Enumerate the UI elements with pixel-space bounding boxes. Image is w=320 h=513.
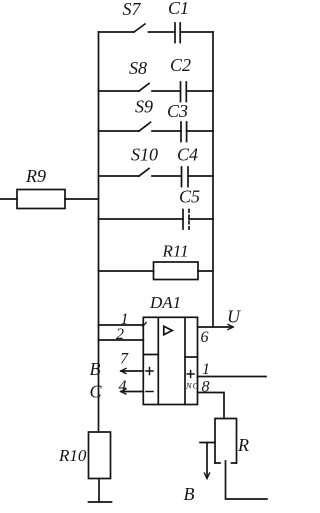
wire R11 left (99, 270, 154, 272)
op-amp minus left (146, 391, 153, 393)
svg-text:R: R (237, 435, 249, 455)
wire S10 to C4 (152, 175, 182, 177)
wire pin7 arrow (121, 370, 143, 372)
svg-text:1: 1 (202, 361, 210, 378)
wire pin1 right (198, 376, 267, 378)
svg-text:C4: C4 (177, 145, 198, 165)
wire R10 to ground (98, 479, 100, 503)
svg-text:S9: S9 (135, 97, 153, 117)
wire C4 to right bus (188, 175, 213, 177)
switch S9 (139, 124, 149, 132)
potentiometer wiper arrow B (200, 442, 215, 444)
svg-text:S8: S8 (129, 58, 147, 78)
switch S7 (134, 24, 145, 32)
svg-text:U: U (227, 307, 241, 327)
op-amp U1 DA1 body (143, 317, 197, 404)
wire pin6 output U (198, 326, 233, 328)
svg-text:R9: R9 (25, 166, 46, 186)
resistor R10 (89, 432, 111, 479)
svg-text:C1: C1 (168, 0, 189, 18)
capacitor C3 (181, 122, 187, 142)
capacitor C4 (182, 167, 189, 187)
wire branch5 left (99, 218, 184, 220)
svg-text:6: 6 (201, 329, 209, 346)
op-amp plus left (146, 368, 153, 375)
wire branch3 left (99, 130, 140, 132)
svg-text:C5: C5 (179, 187, 200, 207)
wire R9 to left bus (65, 198, 99, 200)
svg-text:2: 2 (116, 326, 124, 343)
wire branch2 left (99, 90, 140, 92)
potentiometer R body (215, 419, 237, 464)
svg-text:C: C (90, 382, 103, 402)
wire R11 to right bus (198, 270, 213, 272)
wire branch1 left (99, 31, 135, 33)
wire C5 to right bus (189, 218, 213, 220)
capacitor C5 (182, 210, 184, 230)
wire branch4 left (99, 175, 140, 177)
wire pin4 arrow (121, 391, 143, 393)
wire R center tap down and right (226, 461, 268, 499)
resistor R9 (17, 190, 65, 209)
node right bus (212, 32, 214, 327)
svg-text:S7: S7 (123, 0, 142, 19)
svg-text:4: 4 (119, 378, 127, 395)
svg-text:C3: C3 (167, 101, 188, 121)
svg-text:DA1: DA1 (149, 293, 181, 312)
wire S7 to C1 (149, 31, 176, 33)
wire S9 to C3 (152, 130, 181, 132)
svg-text:B: B (90, 359, 101, 379)
wire pin2 from left bus (99, 339, 144, 341)
svg-text:8: 8 (202, 379, 210, 396)
wire C1 to right bus (180, 31, 213, 33)
svg-text:R10: R10 (58, 446, 87, 465)
switch S10 (139, 169, 149, 177)
svg-text:NC: NC (185, 381, 199, 391)
wire S8 to C2 (152, 90, 181, 92)
svg-text:B: B (184, 484, 195, 504)
svg-text:S10: S10 (131, 145, 158, 165)
svg-text:7: 7 (120, 351, 129, 368)
ground (89, 501, 112, 503)
switch S8 (139, 84, 149, 92)
capacitor C1 (175, 23, 180, 43)
op-amp plus right (187, 371, 194, 378)
wire pin8 to R (198, 393, 225, 419)
svg-text:C2: C2 (170, 55, 191, 75)
resistor R11 (154, 262, 199, 280)
wire pin1 from left bus (99, 324, 144, 326)
wire C2 to right bus (186, 90, 213, 92)
op-amp triangle symbol (164, 326, 172, 334)
capacitor C2 (181, 82, 187, 102)
svg-text:R11: R11 (162, 242, 189, 261)
wire R9 left lead (0, 198, 17, 200)
node left bus (98, 32, 100, 432)
wire C3 to right bus (187, 130, 213, 132)
